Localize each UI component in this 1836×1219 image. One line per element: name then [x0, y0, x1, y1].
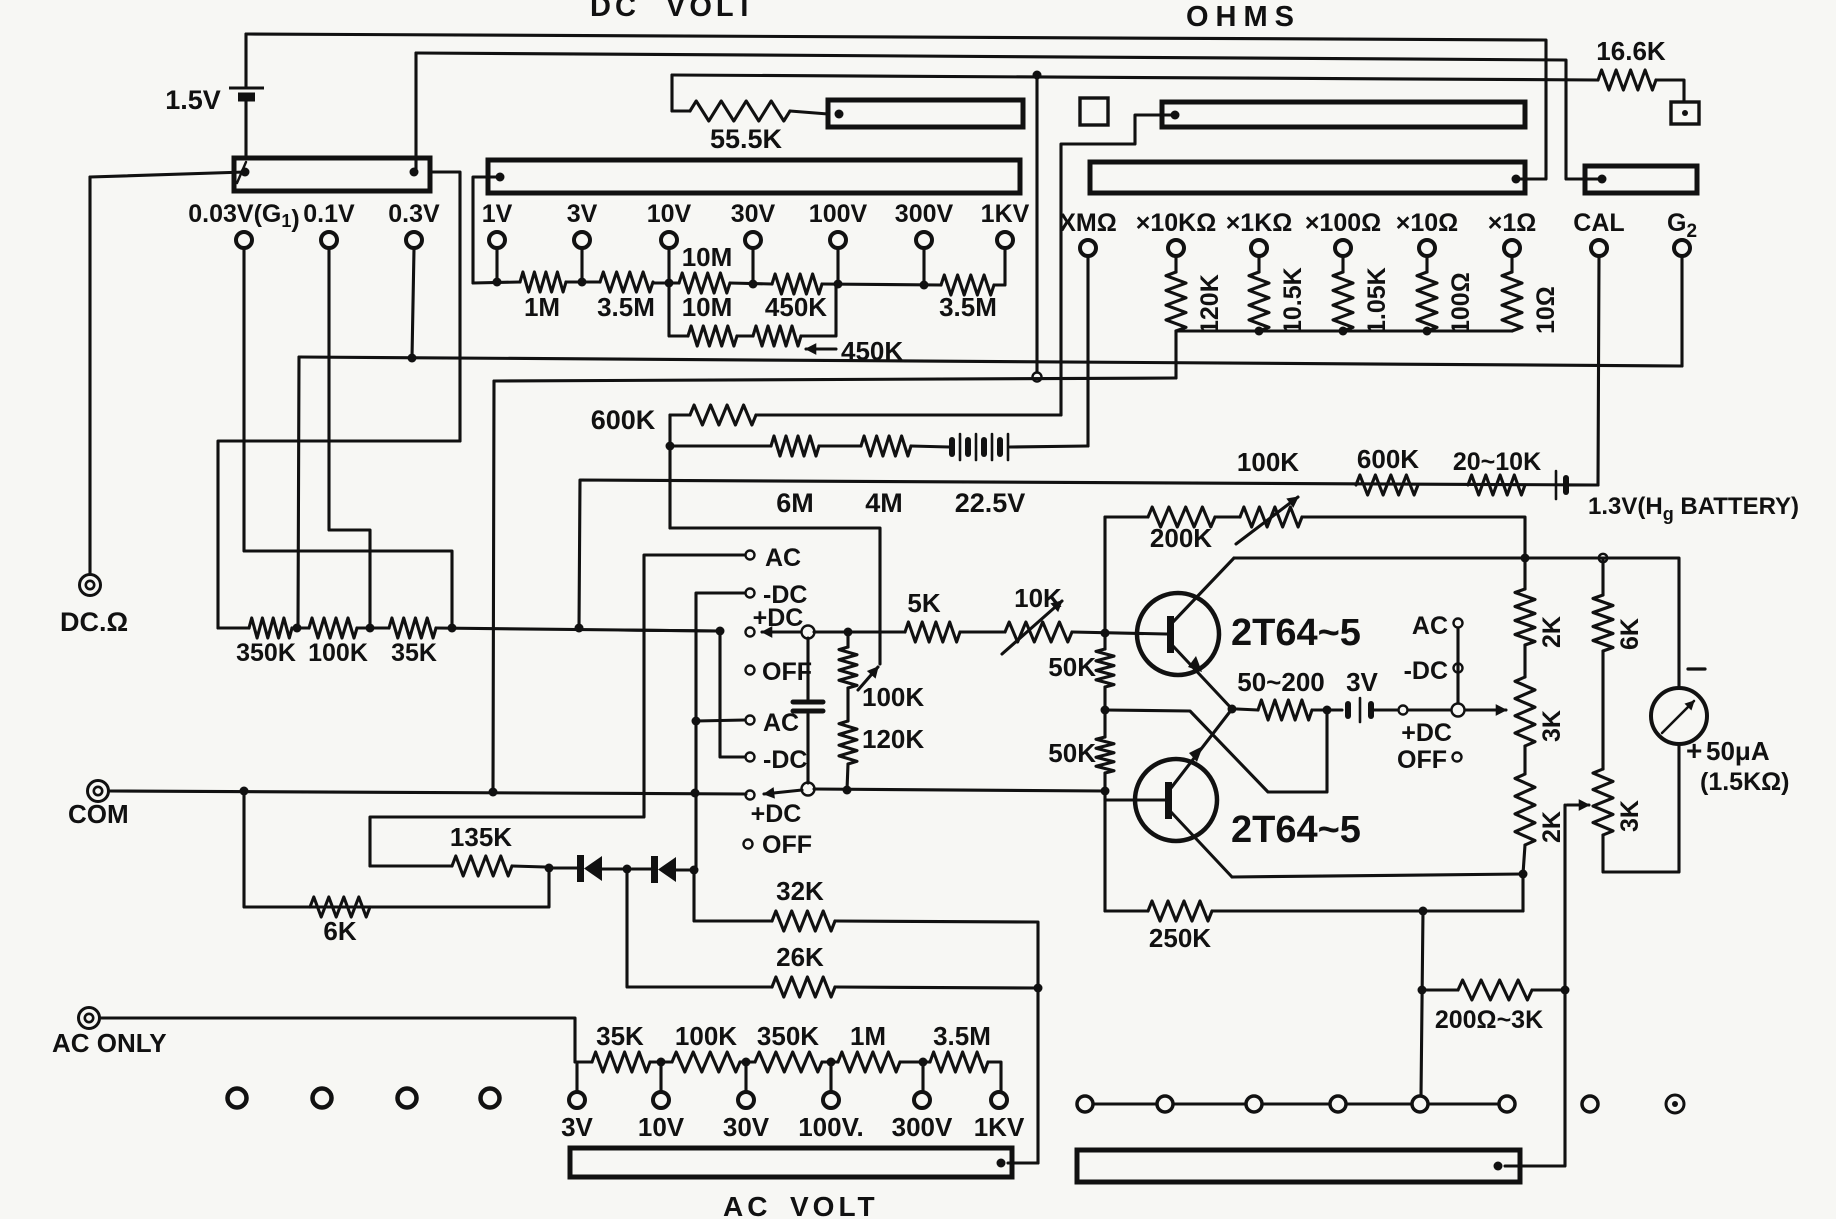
wire drop to bottom row [1421, 911, 1423, 1096]
terminal 100V. (AC) [823, 1092, 839, 1108]
junction 35K right [448, 624, 457, 633]
wire 2K bottom to 250K [1521, 874, 1524, 911]
potentiometer 10K [1005, 622, 1072, 642]
resistor 3.5M [600, 272, 653, 292]
svg-text:3V: 3V [1346, 667, 1378, 697]
svg-text:200Ω~3K: 200Ω~3K [1435, 1006, 1543, 1034]
resistor 600K (left) [690, 405, 756, 425]
svg-text:1KV: 1KV [981, 200, 1030, 228]
wire pole to 5K [814, 630, 905, 633]
svg-text:-DC: -DC [763, 746, 807, 774]
wiper arrow +DC lower [764, 790, 802, 794]
resistor 16.6K [1598, 70, 1656, 90]
svg-text:120K: 120K [1196, 274, 1224, 334]
terminal ×10Ω [1419, 240, 1435, 256]
resistor 120K [1174, 257, 1177, 272]
resistor 50~200 [1237, 709, 1258, 710]
svg-text:10V: 10V [638, 1112, 685, 1142]
svg-text:COM: COM [68, 799, 129, 829]
battery 3V [1345, 704, 1351, 716]
switch contact -DC (right) [1454, 664, 1463, 673]
svg-text:VOLT: VOLT [666, 0, 757, 23]
terminal row R3 [1246, 1096, 1262, 1112]
svg-text:100K: 100K [675, 1021, 737, 1051]
junction 100K/120K top [844, 628, 853, 637]
svg-text:32K: 32K [776, 876, 824, 906]
terminal spare L1 [228, 1089, 247, 1108]
junction 26K/32K drop [1034, 984, 1043, 993]
switch bar S8 [1077, 1150, 1520, 1182]
capacitor (switch) [806, 638, 809, 699]
wire bar S1 right to chain-left [430, 172, 460, 441]
wire 0.03V drop [244, 249, 452, 628]
terminal 10V (AC) [653, 1092, 669, 1108]
terminal row R4 [1330, 1096, 1346, 1112]
wire bus B (second bus to CAL bar) [414, 53, 417, 171]
node 1V [493, 278, 502, 287]
junction AC/-DC [692, 717, 701, 726]
switch contact +DC (upper) [746, 628, 755, 637]
svg-text:XMΩ: XMΩ [1059, 209, 1117, 237]
potentiometer 100K (200K line) [1240, 507, 1302, 527]
battery 1.3V [1555, 471, 1558, 499]
resistor 100K (AC) [672, 1052, 740, 1072]
wire 600K left drop [668, 415, 671, 528]
junction ohms bus x100 [1339, 327, 1348, 336]
svg-text:+: + [1686, 735, 1702, 766]
resistor 600K (battery line) [1356, 475, 1418, 495]
svg-text:200K: 200K [1150, 523, 1212, 553]
wiper arrow to 3K [1466, 708, 1506, 711]
resistor 350K [249, 618, 292, 638]
junction ohms bus x1K [1255, 327, 1264, 336]
wire Q2 collector line [1232, 874, 1523, 877]
resistor 50K (lower) [1096, 737, 1114, 773]
wire battery line riser [579, 480, 1598, 628]
wire COM line [109, 791, 746, 794]
wire input divider line [218, 626, 249, 629]
transistor Q2 2T64~5 [1135, 759, 1217, 841]
wire 6K to 3K [1601, 651, 1604, 769]
svg-text:2K: 2K [1538, 616, 1566, 648]
svg-text:5K: 5K [907, 588, 940, 618]
svg-text:10Ω: 10Ω [1532, 286, 1560, 334]
resistor 1.05K [1341, 257, 1344, 272]
junction bus C 0.3V [408, 354, 417, 363]
terminal 3V [574, 232, 590, 248]
svg-text:1V: 1V [482, 200, 513, 228]
resistor 1M (AC) [838, 1052, 900, 1072]
svg-text:OFF: OFF [762, 831, 812, 859]
wire bus C [299, 357, 1682, 366]
svg-text:30V: 30V [723, 1112, 770, 1142]
resistor 250K [1148, 901, 1212, 921]
terminal 3V (AC) [569, 1092, 585, 1108]
node 100V AC [827, 1058, 836, 1067]
terminal ×100Ω [1335, 240, 1351, 256]
wire DC.ohm to bar S1 [90, 172, 245, 177]
terminal row R2 [1157, 1096, 1173, 1112]
svg-text:16.6K: 16.6K [1596, 36, 1666, 66]
switch bar S7 (AC volt) [570, 1148, 1012, 1177]
terminal ×1KΩ [1251, 240, 1267, 256]
wire 26K line [627, 869, 772, 987]
wire 50K chain [1103, 634, 1106, 649]
switch bar S6 (CAL) [1585, 166, 1697, 193]
svg-text:2K: 2K [1538, 811, 1566, 843]
terminal 100V [830, 232, 846, 248]
switch bar S3 [828, 100, 1023, 127]
svg-text:3K: 3K [1538, 710, 1566, 742]
resistor 350K (AC) [755, 1052, 822, 1072]
terminal 30V (AC) [738, 1092, 754, 1108]
junction 50K mid [1101, 706, 1110, 715]
terminal 300V [916, 232, 932, 248]
resistor 35K (input) [389, 618, 436, 638]
wire ohms bar S4 to 600K [1061, 115, 1175, 415]
wire DC divider line [473, 282, 520, 283]
svg-text:×100Ω: ×100Ω [1305, 209, 1381, 237]
node 100V [834, 280, 843, 289]
resistor 100K (input) [309, 618, 357, 638]
svg-text:100K: 100K [1237, 447, 1299, 477]
wire -DC contact drop [696, 593, 745, 868]
svg-text:1.5V: 1.5V [165, 85, 221, 115]
potentiometer 100K (bridge) [846, 632, 849, 647]
svg-text:35K: 35K [596, 1021, 644, 1051]
terminal 1V [489, 232, 505, 248]
svg-text:×1KΩ: ×1KΩ [1226, 209, 1293, 237]
wire 16.6K to pad [1656, 80, 1684, 102]
wiper arrow +DC upper [762, 630, 800, 633]
switch pad square (ohms) [1080, 98, 1108, 125]
svg-text:30V: 30V [731, 200, 776, 228]
wire vertical link bus E to bus D [1035, 75, 1038, 372]
terminal DC.Ω [80, 575, 101, 596]
svg-text:AC: AC [765, 544, 801, 572]
terminal G2 [1674, 240, 1690, 256]
junction COM/6K [240, 787, 249, 796]
terminal XMΩ [1080, 240, 1096, 256]
switch contact OFF (upper) [746, 666, 755, 675]
switch contact AC (lower) [746, 716, 755, 725]
wire 32K drop to bar S7 [1008, 1161, 1038, 1164]
svg-text:AC ONLY: AC ONLY [52, 1028, 167, 1058]
resistor 3.5M (1KV) [941, 275, 994, 295]
terminal 10V [661, 232, 677, 248]
junction COM/busD [489, 788, 498, 797]
svg-text:+DC: +DC [1401, 719, 1452, 747]
svg-text:OFF: OFF [762, 658, 812, 686]
resistor 3.5M (AC) [930, 1052, 988, 1072]
svg-text:+DC: +DC [751, 800, 802, 828]
svg-text:6M: 6M [776, 488, 814, 518]
node 3V [578, 278, 587, 287]
wire bridge mid link [1105, 710, 1327, 792]
wire 10K to Q1 base [1072, 632, 1166, 634]
svg-text:10M: 10M [682, 242, 733, 272]
svg-text:3.5M: 3.5M [939, 292, 997, 322]
svg-text:100Ω: 100Ω [1447, 272, 1475, 334]
svg-text:3.5M: 3.5M [933, 1021, 991, 1051]
resistor 55.5K [690, 101, 790, 121]
junction 6M branch [666, 442, 675, 451]
wire CAL drop [1598, 257, 1599, 485]
resistor 3K (meter pot) [1593, 769, 1613, 835]
node 10V AC [657, 1058, 666, 1067]
junction 100K/35K [366, 624, 375, 633]
svg-text:0.3V: 0.3V [388, 200, 440, 228]
svg-text:×1Ω: ×1Ω [1488, 209, 1537, 237]
svg-text:-DC: -DC [763, 581, 807, 609]
junction Q2 collector/2K [1519, 870, 1528, 879]
resistor 6K (meter) [1601, 558, 1604, 595]
resistor 5K [905, 622, 960, 642]
svg-text:1KV: 1KV [974, 1112, 1025, 1142]
junction bus E/ohms-link [1033, 71, 1042, 80]
svg-text:OHMS: OHMS [1186, 1, 1301, 33]
transistor Q1 2T64~5 [1137, 593, 1219, 675]
node 10V [665, 279, 674, 288]
svg-text:22.5V: 22.5V [955, 488, 1026, 518]
switch pole lower [802, 783, 815, 796]
svg-text:1.05K: 1.05K [1363, 267, 1391, 334]
contact circle battery [1399, 706, 1408, 715]
resistor 20~10K [1468, 475, 1525, 495]
wire battery to pole [1409, 708, 1450, 711]
resistor 10M lower [688, 326, 737, 346]
terminal CAL [1591, 240, 1607, 256]
junction collector/2K [1521, 554, 1530, 563]
wire 3.5M to 1KV [994, 249, 1005, 285]
junction battery-line tap [575, 624, 584, 633]
terminal ×10KΩ [1168, 240, 1184, 256]
resistor 4M [861, 436, 911, 456]
resistor 2K (top) [1523, 558, 1526, 589]
wire 6M/4M line [670, 444, 771, 447]
label 450K lower with arrow [806, 347, 836, 350]
wire AC contact [370, 555, 745, 866]
diode D2 [632, 867, 651, 870]
switch contact OFF (right) [1453, 753, 1462, 762]
svg-text:4M: 4M [865, 488, 903, 518]
svg-text:6K: 6K [1616, 618, 1644, 650]
switch pole upper [802, 626, 815, 639]
wire AC lower contact [696, 720, 745, 721]
svg-text:100V: 100V [809, 200, 868, 228]
terminal spare L4 [481, 1089, 500, 1108]
svg-text:100K: 100K [862, 682, 924, 712]
svg-text:600K: 600K [591, 405, 656, 435]
wire bottom terminal row [1085, 1102, 1507, 1105]
wire bus D [494, 378, 1176, 381]
node 30V [749, 280, 758, 289]
wire AC ONLY line [100, 1018, 575, 1062]
switch bar S1 [234, 158, 430, 191]
wire 3K bottom to meter [1603, 744, 1679, 872]
wire 0.1V drop [329, 249, 370, 628]
wire main line to switch [620, 630, 718, 631]
svg-text:10M: 10M [682, 292, 733, 322]
svg-text:1M: 1M [524, 292, 560, 322]
resistor 450K upper [772, 274, 822, 294]
svg-text:350K: 350K [236, 639, 296, 667]
resistor 10Ω [1510, 257, 1513, 272]
svg-text:OFF: OFF [1397, 746, 1447, 774]
resistor 35K (AC) [592, 1052, 650, 1072]
resistor 50K (upper) [1096, 649, 1114, 687]
junction Q1 base/50K [1101, 629, 1110, 638]
junction 350K/100K [293, 624, 302, 633]
junction 120K bottom [843, 786, 852, 795]
junction 200ohm-3K left [1418, 986, 1427, 995]
contact circle on bus D [1033, 373, 1042, 382]
svg-text:300V: 300V [895, 200, 954, 228]
svg-text:600K: 600K [1357, 444, 1419, 474]
svg-text:250K: 250K [1149, 923, 1211, 953]
svg-text:×10Ω: ×10Ω [1396, 209, 1458, 237]
switch contact AC (right) [1456, 628, 1459, 703]
terminal AC ONLY [79, 1008, 100, 1029]
resistor 200K [1148, 507, 1215, 527]
svg-text:3V: 3V [561, 1112, 593, 1142]
wire bar S8 to riser [1505, 990, 1565, 1166]
wire battery to CAL riser [1570, 483, 1598, 486]
svg-text:(1.5KΩ): (1.5KΩ) [1700, 768, 1790, 796]
svg-text:0.1V: 0.1V [303, 200, 355, 228]
terminal row R6 [1499, 1096, 1515, 1112]
junction diodes mid [623, 865, 632, 874]
switch contact -DC (lower) [746, 753, 755, 762]
terminal row R5 [1412, 1096, 1428, 1112]
svg-text:AC: AC [723, 1191, 771, 1219]
resistor 26K [772, 977, 835, 997]
svg-text:3.5M: 3.5M [597, 292, 655, 322]
svg-text:CAL: CAL [1573, 209, 1624, 237]
junction emitter node [1228, 705, 1237, 714]
node 300V [920, 281, 929, 290]
wire 32K line [694, 870, 772, 921]
svg-text:2T64~5: 2T64~5 [1231, 809, 1361, 851]
resistor 32K [772, 911, 835, 931]
svg-text:10.5K: 10.5K [1279, 267, 1307, 334]
svg-text:10K: 10K [1014, 583, 1062, 613]
resistor 135K [370, 864, 452, 867]
switch contact -DC (upper) [746, 589, 755, 598]
svg-text:100K: 100K [308, 639, 368, 667]
battery 1.5V [244, 34, 247, 86]
svg-text:AC: AC [1412, 612, 1448, 640]
wire 200K line [1105, 515, 1148, 518]
junction -DC2 branch [716, 627, 725, 636]
wire bar S2 stub down to divider [473, 177, 500, 283]
battery 22.5V [949, 440, 955, 454]
wire G2 drop [1680, 257, 1683, 366]
wire 5K to 10K [960, 630, 1005, 633]
svg-text:350K: 350K [757, 1021, 819, 1051]
resistor 2K (bottom) [1523, 746, 1526, 774]
svg-text:50~200: 50~200 [1237, 667, 1324, 697]
terminal 0.1V [321, 232, 337, 248]
svg-text:3K: 3K [1616, 800, 1644, 832]
meter 50uA [1651, 688, 1707, 744]
wire 0.3V drop [412, 249, 414, 358]
resistor 6K (AC cal) [310, 897, 370, 917]
svg-text:50K: 50K [1048, 652, 1096, 682]
wire chain left up [218, 441, 460, 628]
svg-text:-DC: -DC [1404, 657, 1448, 685]
svg-text:1.3V(Hg BATTERY): 1.3V(Hg BATTERY) [1588, 493, 1799, 524]
svg-text:DC: DC [590, 0, 640, 23]
junction COM/-DC vertical [691, 789, 700, 798]
switch contact OFF (lower) [744, 840, 753, 849]
wiper arrow 100K trimmer [858, 667, 878, 690]
svg-text:120K: 120K [862, 724, 924, 754]
wire lower pole line [814, 789, 1105, 791]
wire bus E (16.6K feed) [670, 75, 673, 111]
svg-text:1M: 1M [850, 1021, 886, 1051]
terminal 0.3V [406, 232, 422, 248]
resistor 200Ω~3K [1422, 988, 1458, 991]
svg-text:50μA: 50μA [1706, 736, 1770, 766]
svg-text:6K: 6K [323, 916, 356, 946]
switch pole right [1452, 704, 1465, 717]
terminal 0.03V(G1) [236, 232, 252, 248]
switch contact AC (upper) [746, 551, 755, 560]
svg-text:450K: 450K [765, 292, 827, 322]
svg-text:2T64~5: 2T64~5 [1231, 612, 1361, 654]
junction ohms bus x10 [1423, 327, 1432, 336]
svg-text:×10KΩ: ×10KΩ [1136, 209, 1217, 237]
resistor 10.5K [1257, 257, 1260, 272]
wire ohms resistor bus [1176, 329, 1512, 332]
svg-text:100V.: 100V. [798, 1112, 864, 1142]
node 30V AC [742, 1058, 751, 1067]
terminal spare L2 [313, 1089, 332, 1108]
svg-text:35K: 35K [391, 639, 437, 667]
junction 50-200/bridge [1323, 706, 1332, 715]
switch bar S5 (ohms lower) [1090, 162, 1525, 193]
wire trimmer feed [670, 528, 880, 664]
resistor 450K lower [753, 326, 801, 346]
resistor 10M upper [679, 273, 730, 293]
svg-text:135K: 135K [450, 822, 512, 852]
terminal spare L3 [398, 1089, 417, 1108]
terminal 1KV (AC) [991, 1092, 1007, 1108]
terminal spare R8 [1666, 1095, 1684, 1113]
wiper arrow 3K meter [1563, 805, 1566, 990]
switch bar S2 [488, 160, 1020, 193]
terminal COM [88, 781, 109, 802]
resistor 120K (bridge) [846, 688, 849, 721]
switch contact +DC (lower) [746, 791, 755, 800]
diode D1 [553, 866, 577, 869]
resistor 3K (mid pot) [1523, 645, 1526, 677]
wire -DC lower contact [720, 631, 745, 757]
svg-text:300V: 300V [892, 1112, 953, 1142]
terminal ×1Ω [1504, 240, 1520, 256]
svg-text:20~10K: 20~10K [1453, 448, 1541, 476]
junction 250K/drop [1419, 907, 1428, 916]
wire bus A (top DC volt bus to ohms bar) [246, 34, 1546, 179]
svg-text:3V: 3V [567, 200, 598, 228]
terminal row R1 [1077, 1096, 1093, 1112]
svg-text:10V: 10V [647, 200, 692, 228]
switch pad square (16.6K) [1671, 102, 1699, 124]
contact circle 6K top [1599, 554, 1607, 562]
wire AC volt chain [575, 1060, 592, 1063]
terminal 1KV [997, 232, 1013, 248]
